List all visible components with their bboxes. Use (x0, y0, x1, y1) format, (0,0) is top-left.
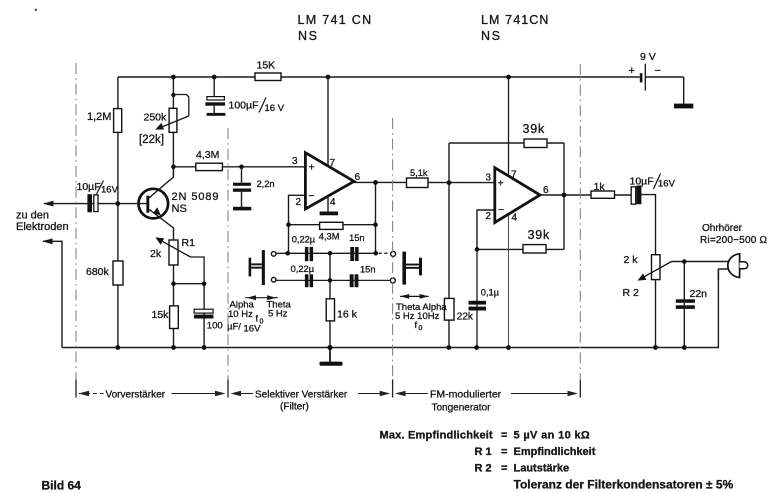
battery 9V plus plate (640, 73, 643, 82)
capacitor 15n row1 plates (350, 247, 354, 261)
capacitor 0,22u row2 plates (305, 274, 309, 287)
potentiometer R2 wiper diagonal (641, 262, 672, 279)
svg-text:+: + (498, 178, 504, 190)
svg-text:15K: 15K (257, 60, 276, 72)
resistor 4,3M (input) (196, 163, 223, 170)
node dots (115, 75, 686, 351)
svg-text:2k: 2k (150, 248, 162, 260)
wire: base input row to op-amp U1 (173, 166, 305, 168)
earphone shell (728, 254, 740, 278)
ground: 100uF top (207, 113, 226, 116)
svg-text:5 µV an 10 kΩ: 5 µV an 10 kΩ (514, 430, 591, 442)
svg-text:0,22µ: 0,22µ (292, 235, 316, 245)
wire: filter row 1 (276, 252, 377, 254)
svg-text:4: 4 (512, 213, 518, 224)
wire: earphone lower terminal (718, 269, 728, 280)
svg-text:(Filter): (Filter) (280, 402, 309, 413)
svg-text:100: 100 (207, 321, 223, 332)
potentiometer R1 2k body (169, 240, 178, 265)
svg-text:Toleranz der Filterkondensator: Toleranz der Filterkondensatoren ± 5% (514, 477, 734, 491)
wire: filter row 1 dashed contact (379, 252, 389, 254)
svg-text:Selektiver Verstärker: Selektiver Verstärker (255, 390, 348, 401)
svg-text:NS: NS (481, 29, 502, 43)
section arrow Vorverstaerker (79, 393, 224, 395)
wire: 22k / U2 + input branch (448, 143, 450, 348)
op-amp pin labels U1 (292, 156, 361, 208)
ground: battery (674, 104, 693, 109)
section ticks (76, 380, 580, 398)
wire: U1 inverting input step (289, 195, 306, 253)
svg-text:5 Hz: 5 Hz (268, 309, 288, 320)
svg-text:22k: 22k (457, 311, 474, 322)
svg-text:R 1: R 1 (475, 446, 492, 458)
transistor Q1 base bar (146, 196, 149, 213)
svg-text:R 2: R 2 (475, 462, 492, 474)
wire: output cap to R2 (641, 195, 655, 255)
switch S1 left bar (249, 258, 252, 277)
wire: return electrode line (43, 241, 62, 347)
wire: 39k top feedback row (449, 142, 564, 144)
svg-text:Tongenerator: Tongenerator (432, 403, 492, 414)
wire: 100uF emitter branch (203, 284, 205, 348)
resistor 680k (113, 261, 123, 285)
svg-text:=: = (501, 446, 507, 458)
svg-text:6: 6 (543, 185, 549, 196)
wire: 0,1u branch (476, 249, 478, 347)
svg-text:4,3M: 4,3M (319, 231, 340, 241)
potentiometer 250k arrowhead (155, 123, 164, 130)
battery 9V minus plate (644, 64, 646, 91)
svg-text:15n: 15n (349, 233, 365, 243)
wire: U2 pin4 to bottom rail (508, 214, 510, 348)
wire: R1 wiper connection (191, 257, 205, 284)
svg-text:3: 3 (486, 173, 492, 184)
svg-text:R1: R1 (182, 237, 196, 249)
svg-text:=: = (501, 430, 507, 442)
bottom annotations (380, 430, 734, 492)
wire: bottom rail (62, 270, 718, 348)
capacitor 2,2n plates (233, 183, 251, 186)
f0 selector double arrow right (400, 295, 428, 297)
wire: 4,3M feedback row (289, 224, 376, 226)
wire: U2 output row (540, 194, 631, 196)
section arrow Selektiver (238, 393, 381, 395)
wire: U1 output drop to filter (375, 182, 377, 253)
resistor 15k (emitter) (170, 306, 179, 329)
paper speck (35, 9, 37, 11)
svg-text:22n: 22n (690, 288, 708, 300)
resistor 15K (top) (255, 73, 281, 81)
svg-text:zu den: zu den (16, 210, 49, 222)
wire: wiper to earphone (672, 261, 729, 263)
capacitor 10uF/16V output: outline plate (631, 187, 636, 204)
svg-text:7: 7 (330, 158, 336, 169)
f0 selector double arrow left (245, 297, 277, 299)
potentiometer 250k body (169, 108, 177, 132)
svg-text:6: 6 (355, 172, 361, 183)
resistor 1k (591, 191, 615, 198)
svg-text:Max. Empfindlichkeit: Max. Empfindlichkeit (380, 430, 494, 442)
capacitor 0,1u plates (469, 301, 487, 305)
svg-text:7: 7 (511, 170, 517, 181)
capacitor 15n row2 plates (350, 274, 354, 287)
wire: 39k bottom feedback row (477, 248, 564, 250)
wire: 100uF top branch (213, 77, 215, 113)
potentiometer R2 arrowhead (638, 273, 647, 280)
capacitor 100uF emitter: lower plate (194, 315, 214, 319)
ground: U1 pin4 (320, 212, 338, 216)
wire: 16k ground stub (329, 348, 331, 363)
capacitor 10uF/16V output: solid plate (636, 186, 641, 205)
switch S1 contact bottom (271, 277, 276, 282)
wire: U1 output row to U2 (354, 181, 495, 183)
wire: filter row 2 (276, 279, 390, 281)
section labels (106, 389, 502, 414)
svg-text:Elektroden: Elektroden (16, 221, 69, 233)
svg-text:+: + (309, 162, 315, 174)
capacitor 0,22u row1 plates (305, 247, 308, 261)
wire: 22n branch (683, 262, 685, 348)
svg-text:1,2M: 1,2M (87, 111, 111, 123)
switch S2 bridge tall bar (402, 252, 406, 285)
svg-text:−: − (655, 65, 661, 77)
switch S2 crossbar (406, 264, 419, 266)
svg-text:4,3M: 4,3M (196, 149, 219, 161)
resistor 16k (326, 299, 334, 321)
svg-text:0,22µ: 0,22µ (291, 264, 315, 274)
svg-text:2: 2 (296, 197, 302, 208)
svg-text:39k: 39k (523, 122, 546, 136)
section divider dash-dot lines (76, 63, 580, 396)
svg-text:2: 2 (486, 211, 492, 222)
resistor 22k (444, 298, 454, 320)
switch S2 contact bottom (390, 278, 395, 283)
svg-text:Bild 64: Bild 64 (42, 479, 82, 493)
switch S2 right bar (419, 258, 422, 276)
svg-text:−: − (309, 191, 315, 202)
wire: U2 inverting input step (477, 210, 495, 249)
svg-text:Vorverstärker: Vorverstärker (106, 390, 166, 401)
svg-text:FM-modulierter: FM-modulierter (430, 389, 502, 401)
svg-text:NS: NS (172, 203, 187, 215)
svg-text:250k: 250k (144, 112, 168, 124)
svg-text:100µF: 100µF (229, 100, 259, 112)
wire: battery minus to ground (683, 77, 685, 105)
svg-text:680k: 680k (86, 266, 110, 278)
svg-text:−: − (498, 204, 504, 216)
svg-text:10 Hz: 10 Hz (228, 309, 253, 320)
potentiometer R1 arrowhead (155, 237, 164, 245)
op-amp pin labels U2 (486, 170, 550, 224)
capacitor 100uF/16V top: upper plate (207, 97, 225, 100)
svg-text:2 k: 2 k (624, 254, 639, 266)
svg-text:39k: 39k (528, 228, 551, 242)
wire: 250k wiper connection (173, 95, 188, 117)
wire: R2 bottom leg (655, 280, 657, 348)
svg-text:9 V: 9 V (640, 51, 656, 63)
wire: 39k right vertical (563, 143, 565, 249)
wire: 2,2n branch (241, 167, 243, 207)
wire: U1 pin7 from rail (327, 77, 329, 166)
svg-text:2N 5089: 2N 5089 (172, 191, 220, 203)
return arrowhead (42, 238, 53, 244)
capacitor 10uF/16V input: solid plate (87, 194, 92, 212)
capacitor 22n plates (676, 299, 695, 303)
capacitor 100uF/16V top: lower plate (205, 102, 225, 105)
wire: filter centre leg to 16k and ground (329, 253, 331, 347)
svg-text:Lautstärke: Lautstärke (514, 462, 570, 474)
svg-text:NS: NS (298, 29, 319, 43)
switch S1 contact top (271, 252, 276, 257)
resistor 4,3M (feedback) (320, 222, 343, 229)
svg-text:R 2: R 2 (623, 287, 640, 299)
potentiometer 250k wiper diagonal (158, 116, 189, 129)
svg-text:Ri=200−500 Ω: Ri=200−500 Ω (700, 235, 767, 246)
input arrowhead (43, 201, 54, 207)
svg-text:15k: 15k (152, 309, 170, 321)
svg-text:0,1µ: 0,1µ (481, 288, 500, 298)
svg-text:=: = (501, 462, 507, 474)
capacitor 10uF/16V input: outline plate (94, 195, 98, 212)
wire: 250k branch vertical (172, 77, 174, 177)
svg-text:10µF: 10µF (630, 176, 654, 188)
wire: emitter diagonal and chain down (149, 210, 173, 348)
op-amp U2 triangle (495, 168, 540, 223)
wire: left column (1,2M / 680k branch) (117, 77, 119, 348)
potentiometer R2 2k body (652, 255, 661, 280)
potentiometer R1 wiper diagonal (159, 239, 191, 257)
svg-text:LM 741CN: LM 741CN (481, 13, 550, 27)
svg-text:Ohrhörer: Ohrhörer (702, 223, 743, 234)
svg-text:16 k: 16 k (337, 309, 358, 321)
svg-text:3: 3 (292, 156, 298, 167)
fraction slashes for uF/16V labels (97, 98, 661, 195)
svg-text:0: 0 (419, 325, 423, 332)
svg-text:+: + (629, 65, 635, 77)
wire: collector diagonal to 4,3M node (148, 167, 173, 199)
wire: U2 pin7 from rail (508, 77, 510, 176)
emitter arrowhead (153, 207, 161, 215)
svg-text:[22k]: [22k] (139, 134, 164, 146)
ground: 16k (320, 362, 343, 366)
svg-text:1k: 1k (594, 181, 606, 193)
switch S1 bridge tall bar (262, 250, 265, 285)
wire: top supply rail (118, 76, 684, 78)
switch S2 contact top (391, 251, 396, 256)
svg-text:4: 4 (330, 197, 336, 208)
svg-text:5 Hz 10Hz: 5 Hz 10Hz (395, 311, 440, 322)
svg-text:16V: 16V (658, 179, 676, 190)
section arrow FM (402, 393, 570, 395)
wire: U1 pin4 to ground (327, 196, 329, 212)
ground: 2,2n (233, 207, 251, 211)
svg-text:16V: 16V (101, 185, 119, 196)
svg-text:16 V: 16 V (265, 103, 285, 114)
resistor 39k bottom (523, 245, 546, 253)
svg-text:5,1k: 5,1k (410, 168, 428, 178)
resistor 39k top (524, 139, 547, 148)
earphone nub (740, 262, 748, 269)
svg-text:10µF: 10µF (77, 181, 101, 193)
svg-text:µF/: µF/ (227, 322, 241, 333)
resistor 5,1k (407, 178, 429, 188)
op-amp U1 triangle (305, 153, 354, 209)
wire: emitter parallel tie (174, 283, 205, 285)
resistor 1,2M (114, 109, 122, 133)
wire: input electrode line (44, 203, 147, 205)
svg-text:Empfindlichkeit: Empfindlichkeit (514, 446, 596, 458)
svg-text:15n: 15n (360, 265, 376, 275)
transistor Q1 2N5089 circle (139, 189, 169, 219)
svg-text:LM 741 CN: LM 741 CN (298, 13, 373, 27)
capacitor 100uF emitter: upper plate (194, 309, 213, 313)
svg-text:16V: 16V (244, 324, 262, 335)
svg-text:2,2n: 2,2n (257, 179, 275, 189)
switch S1 crossbar (251, 263, 262, 265)
